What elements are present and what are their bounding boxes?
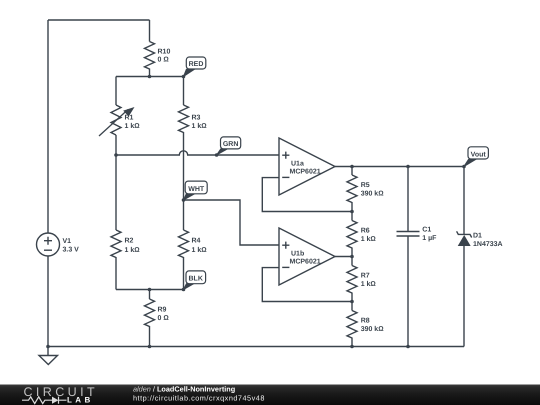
svg-text:1 kΩ: 1 kΩ bbox=[192, 246, 208, 254]
wire GRN rail with hop bbox=[116, 151, 279, 155]
net flag GRN bbox=[215, 137, 241, 157]
capacitor C1 plates bbox=[397, 232, 420, 237]
junction C1 bottom bbox=[406, 345, 410, 349]
wire C1 bottom lead bbox=[407, 236, 409, 347]
wire R7 bottom lead bbox=[351, 293, 353, 302]
svg-text:1 kΩ: 1 kΩ bbox=[125, 122, 141, 130]
svg-text:R2: R2 bbox=[125, 237, 134, 244]
voltage source V1 bbox=[37, 233, 60, 256]
svg-text:R7: R7 bbox=[361, 273, 370, 280]
resistor R10 bbox=[145, 42, 155, 69]
junction R9 bottom bbox=[148, 345, 152, 349]
wire top rail bbox=[48, 19, 150, 21]
svg-text:1 kΩ: 1 kΩ bbox=[192, 122, 208, 130]
logo resistor-diode glyph bbox=[22, 397, 67, 404]
junction R1/R2 GRN node bbox=[114, 153, 118, 157]
resistor R7 bbox=[347, 266, 357, 294]
svg-text:R8: R8 bbox=[361, 318, 370, 325]
wire R5 bottom lead bbox=[351, 202, 353, 212]
wire R9 bottom lead bbox=[149, 326, 151, 347]
wire ground stub bbox=[47, 347, 49, 356]
wire D1 bottom lead bbox=[463, 246, 465, 347]
svg-text:R10: R10 bbox=[158, 48, 171, 55]
junction U1a output / R5 bbox=[350, 165, 354, 169]
wire R1 top lead bbox=[115, 77, 117, 106]
svg-text:R3: R3 bbox=[192, 115, 201, 122]
svg-text:R6: R6 bbox=[361, 228, 370, 235]
op-amp U1a bbox=[279, 138, 335, 195]
wire R5 top lead bbox=[351, 167, 353, 176]
wire U1a output to Vout corner bbox=[335, 166, 464, 168]
svg-text:MCP6021: MCP6021 bbox=[290, 259, 321, 266]
wire R3 top lead bbox=[183, 77, 185, 106]
wire left rail upper bbox=[47, 20, 49, 233]
net flag Vout bbox=[464, 147, 488, 167]
wire R2 bottom lead bbox=[115, 257, 117, 290]
svg-text:V1: V1 bbox=[63, 238, 72, 245]
svg-text:390 kΩ: 390 kΩ bbox=[361, 325, 385, 333]
svg-text:D1: D1 bbox=[473, 233, 482, 240]
wire WHT to U1b input bbox=[184, 200, 280, 245]
resistor R4 bbox=[179, 230, 189, 258]
wire R7 top lead bbox=[351, 257, 353, 266]
junction ground rail bbox=[46, 345, 50, 349]
svg-text:R4: R4 bbox=[192, 237, 201, 244]
svg-text:R5: R5 bbox=[361, 182, 370, 189]
junction R7/R8 feedback U1b bbox=[350, 300, 354, 304]
svg-text:C1: C1 bbox=[422, 227, 431, 234]
junction C1 top bbox=[406, 165, 410, 169]
svg-text:LAB: LAB bbox=[67, 396, 94, 405]
net flag BLK bbox=[182, 271, 206, 291]
svg-text:R1: R1 bbox=[125, 115, 134, 122]
junction R8 bottom bbox=[350, 345, 354, 349]
wire bottom rail bbox=[48, 346, 464, 348]
svg-text:3.3 V: 3.3 V bbox=[63, 247, 80, 254]
svg-text:U1b: U1b bbox=[291, 249, 304, 257]
svg-text:alden / LoadCell-NonInverting: alden / LoadCell-NonInverting bbox=[133, 384, 235, 393]
svg-text:MCP6021: MCP6021 bbox=[290, 169, 321, 176]
svg-text:1 kΩ: 1 kΩ bbox=[125, 246, 141, 254]
net flag WHT bbox=[184, 181, 208, 200]
wire top bridge rail bbox=[116, 76, 184, 78]
footer bar bbox=[0, 385, 540, 405]
wire U1b feedback bbox=[262, 268, 352, 302]
svg-text:0 Ω: 0 Ω bbox=[158, 57, 170, 64]
resistor R1 zigzag bbox=[111, 105, 121, 135]
svg-text:WHT: WHT bbox=[188, 186, 205, 193]
wire R8 top lead bbox=[351, 302, 353, 311]
svg-text:390 kΩ: 390 kΩ bbox=[361, 189, 385, 197]
wire R8 bottom lead bbox=[351, 338, 353, 347]
resistor R2 bbox=[111, 230, 121, 258]
wire U1b output bbox=[335, 256, 352, 258]
zener diode D1 bbox=[457, 231, 472, 245]
net flag RED bbox=[182, 57, 206, 78]
wire R10 bottom lead bbox=[149, 69, 151, 77]
resistor R5 bbox=[347, 175, 357, 203]
svg-text:1 kΩ: 1 kΩ bbox=[361, 280, 377, 288]
resistor R3 bbox=[179, 105, 189, 133]
svg-text:RED: RED bbox=[189, 61, 204, 68]
resistor R6 bbox=[347, 221, 357, 249]
ground bbox=[39, 356, 58, 365]
svg-text:R9: R9 bbox=[158, 306, 167, 313]
svg-text:GRN: GRN bbox=[223, 141, 239, 148]
wire bottom bridge rail bbox=[116, 289, 184, 291]
wire U1a feedback bbox=[262, 178, 352, 212]
svg-text:1 µF: 1 µF bbox=[422, 235, 437, 242]
resistor R9 bbox=[145, 299, 155, 327]
svg-text:1N4733A: 1N4733A bbox=[473, 241, 503, 248]
svg-text:U1a: U1a bbox=[291, 160, 304, 167]
junction U1b output / R6/R7 bbox=[350, 255, 354, 259]
wire R10 top lead bbox=[149, 20, 151, 42]
potentiometer R1 arrow bbox=[99, 107, 135, 136]
wire R4 bottom lead bbox=[183, 257, 185, 290]
wire Vout down to D1 bbox=[463, 167, 465, 235]
svg-text:BLK: BLK bbox=[189, 276, 203, 283]
svg-text:Vout: Vout bbox=[471, 152, 487, 159]
junction R5/R6 feedback U1a bbox=[350, 210, 354, 214]
wire R2 top lead bbox=[115, 155, 117, 230]
junction R3/R4 WHT node bbox=[182, 198, 186, 202]
wire left rail lower bbox=[47, 256, 49, 347]
junction Vout corner bbox=[462, 165, 466, 169]
wire R3 to WHT to R4 bbox=[183, 132, 185, 230]
svg-text:http://circuitlab.com/crxqxnd7: http://circuitlab.com/crxqxnd745v48 bbox=[133, 394, 265, 403]
wire R1 bottom lead bbox=[115, 135, 117, 155]
wire C1 top lead bbox=[407, 167, 409, 232]
svg-text:1 kΩ: 1 kΩ bbox=[361, 235, 377, 243]
svg-text:0 Ω: 0 Ω bbox=[158, 315, 170, 322]
resistor R8 bbox=[347, 311, 357, 339]
wire R6 bottom lead bbox=[351, 248, 353, 257]
junction R9 top bbox=[148, 288, 152, 292]
op-amp U1b bbox=[279, 228, 335, 285]
wire R6 top lead bbox=[351, 212, 353, 221]
junction R10 bottom bbox=[148, 75, 152, 79]
wire R9 top lead bbox=[149, 290, 151, 300]
